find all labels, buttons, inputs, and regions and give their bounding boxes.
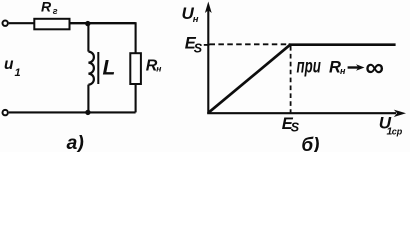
label u1 (input voltage) (4, 56, 21, 79)
resistor Rг (34, 19, 69, 30)
caption б) (301, 135, 319, 156)
svg-text:при: при (297, 56, 322, 77)
terminal: input top-left (2, 21, 7, 26)
label Uн (182, 4, 199, 25)
label Es on y-axis (185, 35, 203, 56)
svg-text:н: н (156, 64, 161, 74)
junction: bottom node (85, 110, 90, 115)
annotation: при Rн (297, 56, 347, 77)
inductor L coil (88, 52, 94, 85)
wire: top horizontal from resistor to right corner (70, 22, 136, 24)
wire: from top terminal to resistor (9, 22, 34, 24)
resistor Rн (130, 53, 141, 84)
saturated flat line (289, 43, 396, 46)
svg-text:ср: ср (392, 126, 403, 136)
svg-text:б): б) (301, 135, 319, 152)
terminal: input bottom-left (2, 110, 7, 115)
label U1cp on x-axis (379, 113, 403, 137)
dashed vertical line at Es (x) (290, 46, 292, 117)
svg-text:u: u (4, 56, 14, 73)
diagonal characteristic line (209, 44, 291, 112)
caption а) (67, 132, 84, 154)
annotation: infinity symbol (365, 52, 384, 82)
label Es on x-axis (282, 115, 300, 135)
dashed horizontal line at Es (210, 43, 291, 45)
inductor L core bar (97, 52, 99, 84)
junction: top node (85, 21, 90, 26)
label L (103, 57, 116, 80)
wire: inductor bottom lead (87, 85, 89, 113)
wire: right branch vertical top (135, 22, 137, 53)
annotation arrow to infinity (348, 64, 365, 70)
svg-text:∞: ∞ (365, 52, 384, 82)
svg-text:R: R (41, 0, 52, 14)
label Rг (41, 0, 58, 16)
svg-text:н: н (193, 14, 199, 25)
svg-text:S: S (194, 42, 203, 56)
wire: bottom horizontal (9, 111, 136, 113)
svg-text:а): а) (67, 132, 84, 152)
svg-text:L: L (103, 57, 116, 80)
label Rн (146, 58, 162, 75)
wire: inductor top lead (87, 23, 89, 51)
y-axis (Uн) with arrow (205, 2, 212, 114)
svg-text:1: 1 (15, 67, 21, 79)
svg-text:г: г (53, 6, 58, 16)
tick at Es level on y-axis (204, 44, 210, 46)
x-axis (U1cp) with arrow (207, 110, 406, 117)
svg-text:S: S (291, 121, 300, 135)
svg-text:н: н (340, 66, 346, 76)
wire: right branch vertical bottom (135, 84, 137, 112)
